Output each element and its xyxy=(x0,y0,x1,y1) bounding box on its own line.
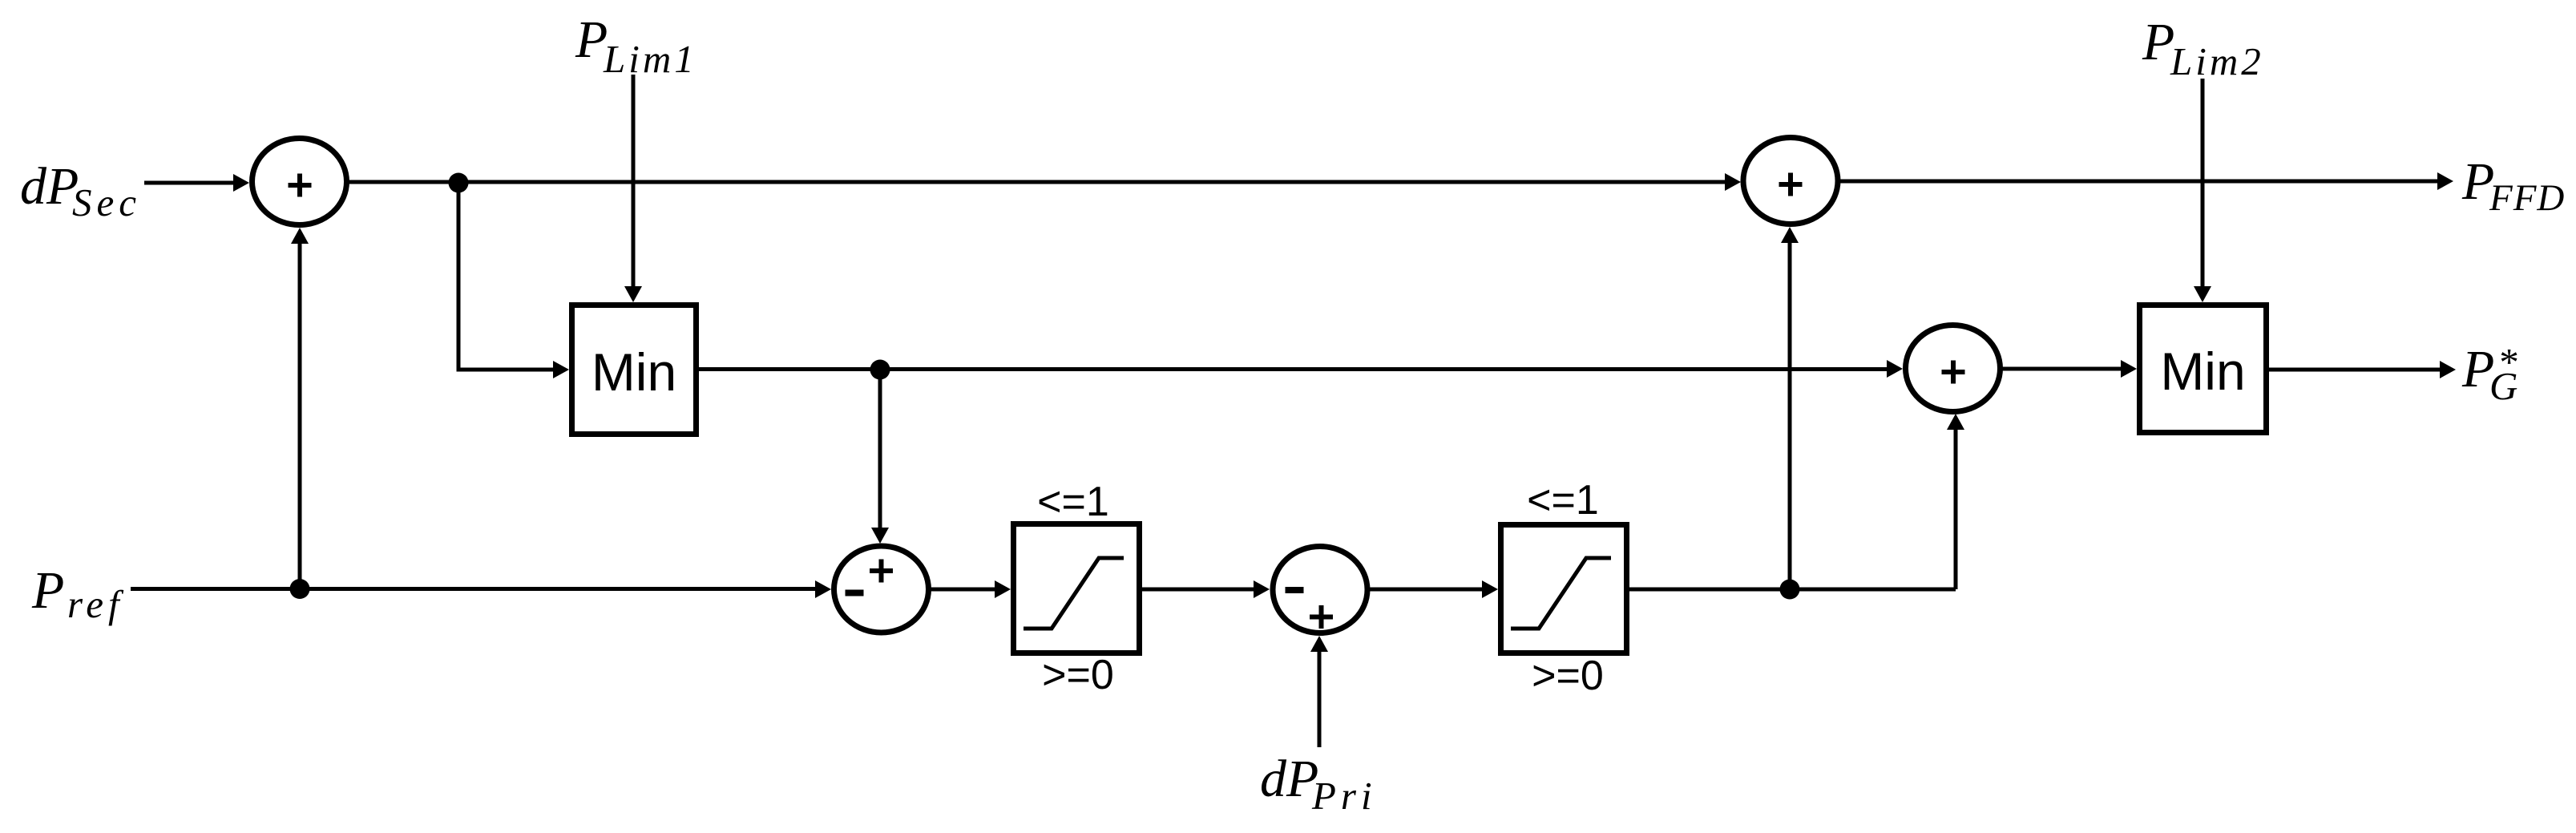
svg-text:Lim2: Lim2 xyxy=(2170,39,2264,83)
svg-text:P: P xyxy=(31,561,64,620)
svg-text:FFD: FFD xyxy=(2489,177,2565,219)
svg-text:Min: Min xyxy=(2160,342,2245,401)
svg-text:dP: dP xyxy=(20,157,79,216)
svg-text:Min: Min xyxy=(592,342,676,402)
svg-text:>=0: >=0 xyxy=(1042,652,1114,698)
svg-text:Lim1: Lim1 xyxy=(603,37,697,81)
svg-text:Pri: Pri xyxy=(1311,774,1377,818)
svg-text:ref: ref xyxy=(67,582,124,626)
svg-text:<=1: <=1 xyxy=(1527,477,1599,524)
svg-text:*: * xyxy=(2497,340,2517,384)
svg-text:>=0: >=0 xyxy=(1532,653,1604,699)
svg-text:dP: dP xyxy=(1260,750,1318,808)
svg-text:Sec: Sec xyxy=(72,180,141,224)
svg-text:<=1: <=1 xyxy=(1037,479,1109,525)
